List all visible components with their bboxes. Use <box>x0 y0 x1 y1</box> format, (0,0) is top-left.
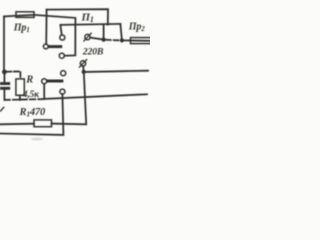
switch П1b upper fixed contact (unconnected) <box>61 71 66 76</box>
wire: plug pin to junction dot <box>90 38 102 40</box>
wire: right corner from bus down to linkage dot <box>120 24 122 40</box>
node: linkage dot <box>120 38 124 42</box>
capacitor C top lead <box>3 74 5 82</box>
wire: into fuse Пр2 <box>122 39 151 41</box>
wire: stray tick at left edge <box>0 107 4 112</box>
resistor R1 body <box>34 120 52 127</box>
fuse Пр2 body <box>131 38 152 44</box>
node: plug junction dot <box>102 38 106 42</box>
node: junction dot at capacitor top <box>2 70 7 75</box>
plug pin lower (circle with slash) <box>80 61 85 66</box>
switch П1a movable arm <box>48 45 62 48</box>
svg-text:R: R <box>25 75 33 86</box>
wire: dashed chassis run from capacitor to switch stem corner <box>4 98 43 101</box>
wire: dashed link from node to resistor R top <box>7 71 21 78</box>
switch П1b pivot contact <box>42 79 47 84</box>
capacitor C bottom lead <box>3 90 5 100</box>
wire: stem from bus down to plug junction dot <box>103 24 105 39</box>
svg-text:220В: 220В <box>82 47 104 58</box>
plug pin upper (circle with slash) <box>85 34 90 39</box>
switch П1a pivot contact <box>43 44 48 49</box>
wire: R bottom lead <box>19 95 21 100</box>
wire: left vertical from fuse line down to node <box>3 16 5 70</box>
wire: from junction right to edge (transformer primary) <box>86 71 148 72</box>
wire: vertical from top corner down to pivot of П1a <box>45 10 47 45</box>
switch П1b movable arm <box>47 80 64 83</box>
wire: lower plug pin stem to junction <box>82 66 85 70</box>
wire: mains line through fuse Пр1 to right corner, down, and to lower contact of П1a <box>4 15 75 56</box>
switch П1a upper fixed contact <box>60 35 65 40</box>
wire: from junction down and left to R1 <box>52 74 87 124</box>
wire: lower contact of П1b down to bottom rail, rail to left edge <box>0 94 63 135</box>
faint scan smudge <box>31 137 43 140</box>
wire: horizontal bus y=25 with left corner stem to upper contact of П1a <box>60 24 120 35</box>
capacitor C bottom plate <box>0 87 10 90</box>
capacitor C top plate <box>0 82 10 85</box>
switch П1a lower fixed contact <box>59 53 64 58</box>
wire: R1 left lead to edge <box>0 123 34 126</box>
node: lower plug junction dot <box>82 70 86 74</box>
wire: top bus from corner above pivot to right corner at x=108 <box>47 9 108 24</box>
wire: dashed mechanical link between switch poles <box>106 39 119 42</box>
svg-text:R1470: R1470 <box>19 107 46 119</box>
resistor R body <box>16 79 24 95</box>
fuse Пр1 body <box>16 12 34 18</box>
svg-text:4,5к: 4,5к <box>22 90 40 100</box>
wire: pivot П1b stem down and long run to right edge <box>44 84 147 99</box>
switch П1b lower fixed contact <box>60 89 65 94</box>
